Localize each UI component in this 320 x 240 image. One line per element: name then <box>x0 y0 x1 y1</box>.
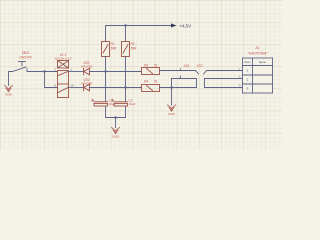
wire: VD1 to R3 <box>90 71 142 73</box>
svg-text:SB11: SB11 <box>22 51 30 55</box>
wire: XS2 sleeve to connector pin 3 <box>205 87 243 89</box>
svg-text:GND: GND <box>5 93 13 97</box>
svg-text:10µF: 10µF <box>109 102 116 106</box>
svg-text:GND: GND <box>168 112 176 116</box>
wire: VD2 to R4 <box>90 87 142 89</box>
svg-text:R2: R2 <box>131 42 135 46</box>
wire: R4 to jack XS1 sleeve <box>160 87 197 89</box>
wire: switch to relay pin 2 <box>27 71 58 73</box>
resistor R1 (vertical) <box>102 42 110 57</box>
jack XS1 tip hook <box>196 71 199 75</box>
jack XS2 tip hook <box>204 71 207 75</box>
wire: stem to GND3 <box>115 118 117 128</box>
switch SB11 <box>9 62 28 86</box>
jack XS2 shunt contact <box>205 79 243 88</box>
svg-text:56R: 56R <box>131 47 138 51</box>
wire: R3 to jack XS1 tip <box>160 70 196 72</box>
plus mark C1 <box>92 99 94 101</box>
svg-text:51: 51 <box>154 80 158 84</box>
wire: C2 bottom to ground bus <box>125 107 127 118</box>
right contact post <box>26 69 28 72</box>
power arrow <box>171 23 177 27</box>
svg-text:+4,5V: +4,5V <box>179 23 192 28</box>
wire: C1 bottom to ground bus <box>105 107 107 118</box>
wire: R2 bottom down to C2 <box>125 57 127 102</box>
capacitor C2 <box>114 102 128 106</box>
svg-text:Конт: Конт <box>244 60 251 64</box>
wire: R1 bottom down to C1 <box>105 57 107 102</box>
svg-text:Цепь: Цепь <box>259 60 267 64</box>
relay K1.1 coil <box>58 61 69 69</box>
plus mark C2 <box>112 99 114 101</box>
plunger stem <box>21 62 23 66</box>
svg-text:X1: X1 <box>254 46 259 50</box>
ground GND3 <box>112 128 120 134</box>
pin tick XS1 shunt <box>180 76 182 78</box>
svg-text:XS2: XS2 <box>195 64 202 68</box>
svg-text:10µF: 10µF <box>129 102 136 106</box>
resistor R2 (vertical) <box>122 42 130 57</box>
jack XS1 shunt contact <box>172 79 197 88</box>
ground GND2 <box>168 105 176 111</box>
wire: XS2 tip to connector pin 1 <box>207 70 243 72</box>
diode VD2 <box>84 84 90 91</box>
junction at top rail <box>124 24 126 26</box>
junction ch2/R2 <box>124 86 126 88</box>
wire: relay pin 10 to VD2 <box>69 87 84 89</box>
wire: ground bus <box>106 117 126 119</box>
svg-text:GND: GND <box>112 135 120 139</box>
wire: left terminal and corner to GND1 <box>9 72 13 86</box>
diode VD1 <box>84 68 90 75</box>
svg-text:XS1: XS1 <box>182 64 189 68</box>
wire: +4.5V top rail from R1 top <box>106 26 172 42</box>
plunger cap <box>19 61 26 63</box>
resistor R3 (horizontal) <box>142 68 160 75</box>
junction on ground bus <box>114 116 116 118</box>
svg-text:АЛ307Б: АЛ307Б <box>80 82 92 86</box>
svg-text:R4: R4 <box>144 80 148 84</box>
capacitor C1 <box>94 102 108 106</box>
wire: top rail drop to R2 <box>125 26 127 42</box>
svg-text:R3: R3 <box>144 64 148 68</box>
relay K1.1 contact box <box>58 71 69 98</box>
wire: down and right to relay pin 6 <box>45 72 58 88</box>
svg-text:"НАГРУЗКА": "НАГРУЗКА" <box>248 52 268 56</box>
svg-text:51: 51 <box>154 64 158 68</box>
junction ch1/R1 <box>104 70 106 72</box>
blade <box>13 67 27 72</box>
resistor R4 (horizontal) <box>142 85 160 92</box>
pin tick XS1 tip <box>180 69 182 71</box>
wire: shunt down to GND2 <box>171 79 173 106</box>
svg-text:R1: R1 <box>111 42 115 46</box>
wire: relay pin 1 to VD1 <box>69 71 84 73</box>
svg-text:56R: 56R <box>111 47 118 51</box>
svg-text:ON/OFF: ON/OFF <box>19 56 32 60</box>
svg-text:АЛ307Б: АЛ307Б <box>80 65 92 69</box>
junction before relay <box>43 70 45 72</box>
junction GND tap <box>170 86 172 88</box>
ground GND1 <box>5 86 13 92</box>
paper background <box>0 0 282 150</box>
svg-text:WJ118-1-1Z: WJ118-1-1Z <box>55 57 72 61</box>
connector X1 table <box>243 58 273 93</box>
